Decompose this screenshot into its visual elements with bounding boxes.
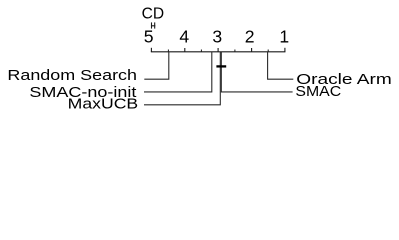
svg-text:5: 5 xyxy=(144,27,154,47)
minor tick rank 2.5 xyxy=(234,50,236,52)
minor tick rank 3.5 xyxy=(200,50,202,52)
svg-text:Random Search: Random Search xyxy=(7,67,137,84)
major tick rank 3 xyxy=(217,48,219,52)
svg-text:1: 1 xyxy=(279,27,289,47)
svg-text:3: 3 xyxy=(212,27,222,47)
axis right end cap (rank 1) xyxy=(284,48,286,52)
axis left end cap (rank 5) xyxy=(150,48,152,52)
svg-text:SMAC: SMAC xyxy=(295,83,341,100)
svg-text:MaxUCB: MaxUCB xyxy=(68,96,139,113)
axis main line xyxy=(151,51,286,53)
svg-text:4: 4 xyxy=(179,27,189,47)
connector wire Oracle Arm xyxy=(268,52,294,79)
svg-text:CD: CD xyxy=(142,6,165,23)
CD interval bar xyxy=(151,22,155,28)
connector wire Random Search xyxy=(144,52,169,79)
clique bar (MaxUCB - SMAC) xyxy=(216,65,226,67)
major tick rank 2 xyxy=(251,48,253,52)
major tick rank 4 xyxy=(184,48,186,52)
connector wire SMAC xyxy=(221,52,292,92)
connector wire MaxUCB xyxy=(144,52,220,105)
svg-text:2: 2 xyxy=(245,27,255,47)
minor tick rank 1.5 xyxy=(267,50,269,52)
minor tick rank 4.5 xyxy=(167,50,169,52)
connector wire SMAC-no-init xyxy=(144,52,212,92)
